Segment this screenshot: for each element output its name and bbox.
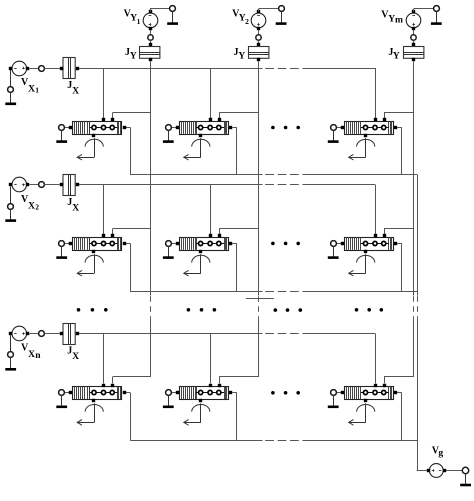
wire V_Y1 top to ground node bbox=[150, 9, 152, 12]
wire bus drop to cell row n col m top-left bbox=[375, 334, 377, 384]
row 2 output line solid left bbox=[130, 291, 262, 293]
wire cell row n col m left node bbox=[336, 392, 341, 394]
svg-text:2: 2 bbox=[245, 17, 249, 26]
row 2 output line solid right bbox=[310, 291, 418, 293]
svg-text:X: X bbox=[72, 352, 79, 362]
svg-text:X: X bbox=[72, 87, 79, 97]
svg-text:m: m bbox=[395, 15, 403, 25]
adjust arrow cell row 2 col 2 bbox=[184, 254, 210, 276]
wire cell row 2 col m right to output bbox=[397, 243, 402, 245]
wire collector to V_g bbox=[417, 470, 427, 472]
cell device row 2 col m bbox=[341, 234, 397, 253]
junction J_Y col m bbox=[404, 43, 424, 61]
wire cell row 1 col 1 right to output bbox=[126, 127, 131, 129]
ground of V_X1 bbox=[5, 70, 16, 104]
wire V_X1 to node bbox=[29, 68, 38, 70]
svg-text:X: X bbox=[28, 350, 35, 360]
junction J_Y col 1 bbox=[140, 43, 161, 61]
continuation dots middle bbox=[274, 308, 278, 312]
wire bus drop to cell row 2 col m top-left bbox=[375, 185, 377, 234]
wire node to J_X row 2 bbox=[44, 184, 59, 186]
ground node of V_Y2 bbox=[279, 6, 285, 12]
continuation dots row n bbox=[271, 391, 275, 395]
row n output line solid left bbox=[130, 440, 262, 442]
wire cell row n col 2 right to output bbox=[232, 392, 237, 394]
wire node to J_Y col 2 bbox=[258, 40, 260, 44]
node cell row 2 col m bbox=[331, 241, 337, 247]
cell device row 2 col 1 bbox=[69, 234, 126, 253]
ground node of V_Ym bbox=[434, 6, 440, 12]
cell device row n col 1 bbox=[69, 384, 126, 402]
collector vertical to V_g bbox=[417, 175, 419, 296]
row bus 2 : solid left part bbox=[79, 184, 263, 186]
junction J_Y col 2 bbox=[248, 43, 269, 61]
svg-text:X: X bbox=[28, 201, 35, 211]
row 1 output line dashed middle bbox=[265, 174, 309, 176]
node cell row n col m bbox=[331, 390, 337, 396]
continuation dots column m bbox=[355, 308, 359, 312]
wire cell row 2 col 2 top-right to column line bbox=[219, 229, 221, 234]
junction J_X row 1 bbox=[60, 58, 79, 79]
adjust arrow cell row 1 col 2 bbox=[184, 138, 210, 160]
ground cell row 1 col m bbox=[333, 130, 335, 141]
wire cell row 2 col 2 left node bbox=[171, 243, 176, 245]
svg-text:Y: Y bbox=[393, 52, 400, 62]
node cell row 1 col 1 bbox=[59, 125, 65, 131]
wire node to J_Y col 1 bbox=[150, 40, 152, 44]
wire V_Y2 to node bbox=[258, 30, 260, 35]
svg-text:X: X bbox=[72, 203, 79, 213]
wire cell row 1 col 2 right to output bbox=[232, 127, 237, 129]
svg-text:1: 1 bbox=[35, 86, 39, 95]
node column 1 bbox=[148, 35, 153, 40]
svg-text:Y: Y bbox=[238, 52, 245, 62]
row bus n : solid right part, turns down at col m bbox=[310, 333, 376, 335]
column line J_Ym vertical bbox=[413, 62, 415, 296]
wire cell row 2 col 1 right to output bbox=[126, 243, 131, 245]
ground of V_Y1 bbox=[172, 12, 174, 24]
svg-text:n: n bbox=[35, 351, 41, 361]
row bus 1 : dashed middle bbox=[265, 68, 309, 70]
ground cell row 2 col 1 bbox=[61, 246, 63, 257]
wire bus drop to cell row 2 col 1 top-left bbox=[103, 185, 105, 234]
svg-text:2: 2 bbox=[35, 202, 39, 211]
wire cell row 1 col 2 top-right to column line bbox=[219, 113, 221, 118]
ground cell row 1 col 1 bbox=[61, 130, 63, 141]
junction J_X row 2 bbox=[60, 174, 79, 195]
wire bus drop to cell row n col 1 top-left bbox=[103, 334, 105, 384]
row bus n : solid left part bbox=[79, 333, 263, 335]
adjust arrow cell row n col 2 bbox=[184, 403, 210, 425]
wire V_Ym top to ground node bbox=[413, 9, 415, 12]
wire node to J_X row 1 bbox=[44, 68, 59, 70]
wire cell row 1 col 1 left node bbox=[65, 127, 70, 129]
row bus 2 : solid right part, turns down at col m bbox=[310, 184, 376, 186]
cell device row 1 col m bbox=[341, 118, 397, 137]
voltage source V_Y2 bbox=[251, 10, 266, 30]
ground of V_Xn bbox=[5, 335, 16, 369]
row bus 1 : solid right part, turns down at col m bbox=[310, 68, 376, 70]
wire cell row n col 2 left node bbox=[171, 392, 176, 394]
adjust arrow cell row n col 1 bbox=[77, 403, 103, 425]
svg-text:X: X bbox=[28, 85, 35, 95]
wire V_Ym to node bbox=[413, 30, 415, 35]
ground cell row n col 2 bbox=[168, 396, 170, 407]
adjust arrow cell row 2 col m bbox=[349, 254, 375, 276]
wire V_g to node bbox=[446, 470, 462, 472]
svg-text:g: g bbox=[438, 449, 443, 459]
wire cell row 1 col m top-right to column line bbox=[384, 113, 386, 118]
row 2 output line dashed middle bbox=[265, 291, 309, 293]
ground of V_X2 bbox=[5, 187, 16, 221]
node cell row 1 col 2 bbox=[166, 125, 172, 131]
wire cell row 2 col m top-right to column line bbox=[384, 229, 386, 234]
row n output line dashed middle bbox=[265, 440, 309, 442]
ground of V_Ym bbox=[436, 12, 438, 24]
wire cell row n col 1 left node bbox=[65, 392, 70, 394]
node input row n bbox=[39, 331, 45, 337]
ground of V_Y2 bbox=[281, 12, 283, 24]
adjust arrow cell row 1 col m bbox=[349, 138, 375, 160]
wire bus drop to cell row n col 2 top-left bbox=[210, 334, 212, 384]
wire bus drop to cell row 2 col 2 top-left bbox=[210, 185, 212, 234]
cell device row n col 2 bbox=[176, 384, 232, 402]
junction J_X row n bbox=[60, 323, 79, 344]
ground cell row 1 col 2 bbox=[168, 130, 170, 141]
adjust arrow cell row 1 col 1 bbox=[77, 138, 103, 160]
wire V_X2 to node bbox=[29, 184, 38, 186]
row bus 2 : dashed middle bbox=[265, 184, 309, 186]
wire cell row 1 col 1 top-right to column line bbox=[112, 113, 114, 118]
voltage source V_Xn bbox=[9, 326, 29, 341]
continuation dots column 2 bbox=[187, 308, 191, 312]
row 1 output line solid left bbox=[130, 174, 262, 176]
node cell row 2 col 2 bbox=[166, 241, 172, 247]
wire cell row 1 col 2 left node bbox=[171, 127, 176, 129]
wire cell row 1 col m right to output bbox=[397, 127, 402, 129]
svg-text:Y: Y bbox=[130, 52, 137, 62]
wire cell row n col 1 top-right to column line bbox=[112, 377, 114, 383]
voltage source V_X1 bbox=[9, 61, 29, 76]
wire V_Y1 to node bbox=[150, 30, 152, 35]
cell device row 2 col 2 bbox=[176, 234, 232, 253]
node input row 2 bbox=[39, 182, 45, 188]
row n output line solid right bbox=[310, 440, 418, 442]
row bus 1 : solid left part bbox=[79, 68, 263, 70]
wire cell row 2 col m left node bbox=[336, 243, 341, 245]
node cell row n col 2 bbox=[166, 390, 172, 396]
node column m bbox=[411, 35, 416, 40]
wire bus drop to cell row 1 col 2 top-left bbox=[210, 68, 212, 118]
wire cell row n col 1 right to output bbox=[126, 392, 131, 394]
ground cell row 2 col m bbox=[333, 246, 335, 257]
adjust arrow cell row n col m bbox=[349, 403, 375, 425]
svg-text:1: 1 bbox=[137, 17, 141, 26]
node cell row 1 col m bbox=[331, 125, 337, 131]
voltage source V_g bbox=[427, 464, 446, 478]
voltage source V_Y1 bbox=[143, 10, 158, 30]
wire node to J_Y col m bbox=[413, 40, 415, 44]
voltage source V_X2 bbox=[9, 177, 29, 192]
ground node of V_Y1 bbox=[170, 6, 176, 12]
column line J_Y2 vertical bbox=[258, 62, 260, 296]
wire bus drop to cell row 1 col 1 top-left bbox=[103, 68, 105, 118]
row bus n : dashed middle bbox=[265, 333, 309, 335]
voltage source V_Ym bbox=[406, 10, 421, 30]
cell device row n col m bbox=[341, 384, 397, 402]
node V_g ground bbox=[462, 467, 468, 473]
ground cell row 2 col 2 bbox=[168, 246, 170, 257]
continuation dots row 1 bbox=[271, 126, 275, 130]
cell device row 1 col 1 bbox=[69, 118, 126, 137]
cell device row 1 col 2 bbox=[176, 118, 232, 137]
column line J_Y1 vertical bbox=[150, 62, 152, 296]
wire cell row n col m top-right to column line bbox=[384, 377, 386, 383]
ground of V_g bbox=[465, 474, 467, 485]
row 1 output line solid right bbox=[310, 174, 418, 176]
ground cell row n col 1 bbox=[61, 396, 63, 407]
wire cell row 2 col 1 left node bbox=[65, 243, 70, 245]
wire cell row n col 2 top-right to column line bbox=[219, 377, 221, 383]
wire V_Xn to node bbox=[29, 333, 38, 335]
wire bus drop to cell row 1 col m top-left bbox=[375, 68, 377, 118]
wire node to J_X row n bbox=[44, 333, 59, 335]
node column 2 bbox=[256, 35, 261, 40]
wire cell row 2 col 1 top-right to column line bbox=[112, 229, 114, 234]
ground cell row n col m bbox=[333, 396, 335, 407]
wire cell row 2 col 2 right to output bbox=[232, 243, 237, 245]
adjust arrow cell row 2 col 1 bbox=[77, 254, 103, 276]
continuation dots column 1 bbox=[77, 308, 81, 312]
wire V_Y2 top to ground node bbox=[258, 9, 260, 12]
node cell row 2 col 1 bbox=[59, 241, 65, 247]
wire cell row 1 col m left node bbox=[336, 127, 341, 129]
stray segment near J_Y2 bbox=[246, 298, 274, 300]
node cell row n col 1 bbox=[59, 390, 65, 396]
node input row 1 bbox=[39, 66, 45, 72]
continuation dots row 2 bbox=[271, 242, 275, 246]
wire cell row n col m right to output bbox=[397, 392, 402, 394]
